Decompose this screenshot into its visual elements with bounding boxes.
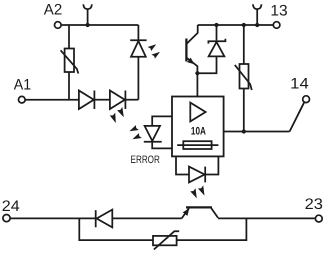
varistor RU3 branch left riser	[79, 218, 153, 240]
junction dot zener top	[214, 23, 218, 27]
ERROR LED triangle	[145, 126, 160, 141]
test tap symbol left (fork)	[83, 4, 92, 9]
terminal A1 circle	[19, 96, 26, 103]
terminal 23 circle	[315, 215, 322, 222]
transistor Q1 collector	[186, 25, 197, 44]
wire top right rail	[198, 24, 274, 26]
output LED emission arrow 2	[198, 185, 208, 196]
varistor RU1 diagonal	[61, 50, 79, 73]
svg-text:13: 13	[270, 3, 287, 20]
fuse body	[183, 141, 211, 149]
opto emission arrow 1 (from D2)	[110, 113, 119, 124]
diode D3 triangle	[97, 210, 113, 228]
diode D2 triangle	[110, 91, 125, 110]
output LED loop left	[176, 156, 189, 174]
wire D1-D2	[94, 99, 110, 101]
ERROR branch top wire	[152, 116, 172, 126]
zener V1 bottom lead	[197, 56, 216, 73]
svg-text:A2: A2	[44, 1, 62, 18]
wire 24 to diode D3	[10, 217, 96, 219]
junction dot at Y-tap right	[255, 23, 259, 27]
svg-text:A1: A1	[14, 77, 31, 94]
output LED cathode bar	[204, 167, 206, 183]
test tap symbol right (fork)	[253, 4, 262, 9]
varistor RU3 diagonal	[154, 231, 179, 249]
junction dot at Y-tap left	[86, 23, 90, 27]
varistor RU3 branch right riser	[177, 218, 247, 240]
LED D5 triangle	[131, 41, 146, 57]
svg-text:10A: 10A	[191, 126, 206, 138]
transistor Q1 emitter arrowhead	[187, 58, 196, 67]
diode D3 cathode bar	[95, 210, 97, 227]
LED D5 cathode bar	[130, 39, 146, 41]
ERROR branch bottom wire	[152, 142, 172, 149]
svg-text:23: 23	[305, 196, 323, 213]
diode D2 cathode bar	[124, 91, 126, 110]
relay module box	[172, 97, 224, 157]
varistor RU2 bottom lead	[243, 89, 245, 132]
diode D1 triangle	[79, 91, 94, 110]
varistor RU2 body	[240, 64, 249, 89]
wire A2 corner down to LED D5	[137, 25, 139, 40]
wire A1	[25, 99, 79, 101]
test tap symbol right (stem)	[256, 9, 258, 25]
zener V1 cathode bar	[208, 39, 225, 44]
LED D5 emission arrow 1	[148, 42, 158, 51]
svg-text:ERROR: ERROR	[131, 154, 160, 166]
transistor Q1 emitter	[186, 58, 197, 97]
switch blade to 14	[290, 103, 304, 132]
fuse through line	[177, 144, 218, 146]
zener V1 top lead	[216, 25, 218, 40]
zener V1 triangle	[209, 42, 225, 57]
ERROR LED cathode bar	[144, 141, 162, 143]
output LED triangle	[189, 167, 205, 183]
junction dot emitter/zener	[195, 71, 199, 75]
wire LED D5 down to A1 line	[137, 57, 139, 100]
wire A2 horizontal	[61, 24, 138, 26]
output LED emission arrow 1	[190, 188, 200, 199]
transistor Q2 left lead	[182, 208, 189, 218]
wire D2 to riser	[125, 99, 138, 101]
varistor RU2 top lead	[243, 25, 245, 64]
terminal 14 circle	[303, 96, 310, 103]
varistor RU3 body	[153, 236, 177, 245]
terminal A2 circle	[55, 22, 62, 29]
svg-text:24: 24	[2, 198, 20, 215]
terminal 24 circle	[3, 215, 10, 222]
transistor Q2 arrowhead	[183, 207, 192, 216]
output LED loop right	[205, 156, 218, 174]
node A2/varistor tee	[68, 25, 70, 49]
test tap symbol left (stem)	[87, 9, 89, 25]
amplifier symbol	[190, 103, 205, 122]
svg-text:14: 14	[290, 75, 309, 92]
ERROR LED emission arrow 2	[131, 133, 142, 142]
ERROR LED emission arrow 1	[128, 125, 139, 134]
transistor Q2 right lead	[211, 208, 218, 218]
diode D1 cathode bar	[93, 91, 95, 110]
junction dot varistor RU2 top	[242, 23, 246, 27]
wire varistor RU1 to A1 line	[68, 72, 70, 100]
varistor RU1 body	[65, 49, 74, 73]
transistor Q1 base bar	[185, 39, 187, 62]
wire D3 to transistor Q2	[112, 217, 181, 219]
junction dot varistor RU2 bottom	[242, 129, 246, 133]
varistor RU2 diagonal	[235, 65, 252, 90]
opto emission arrow 2 (from D2)	[117, 107, 127, 118]
terminal 13 circle	[273, 22, 280, 29]
wire box to switch	[224, 131, 290, 133]
wire Q2 to terminal 23	[218, 217, 315, 219]
transistor Q2 base bar	[186, 206, 212, 208]
LED D5 emission arrow 2	[151, 50, 161, 59]
